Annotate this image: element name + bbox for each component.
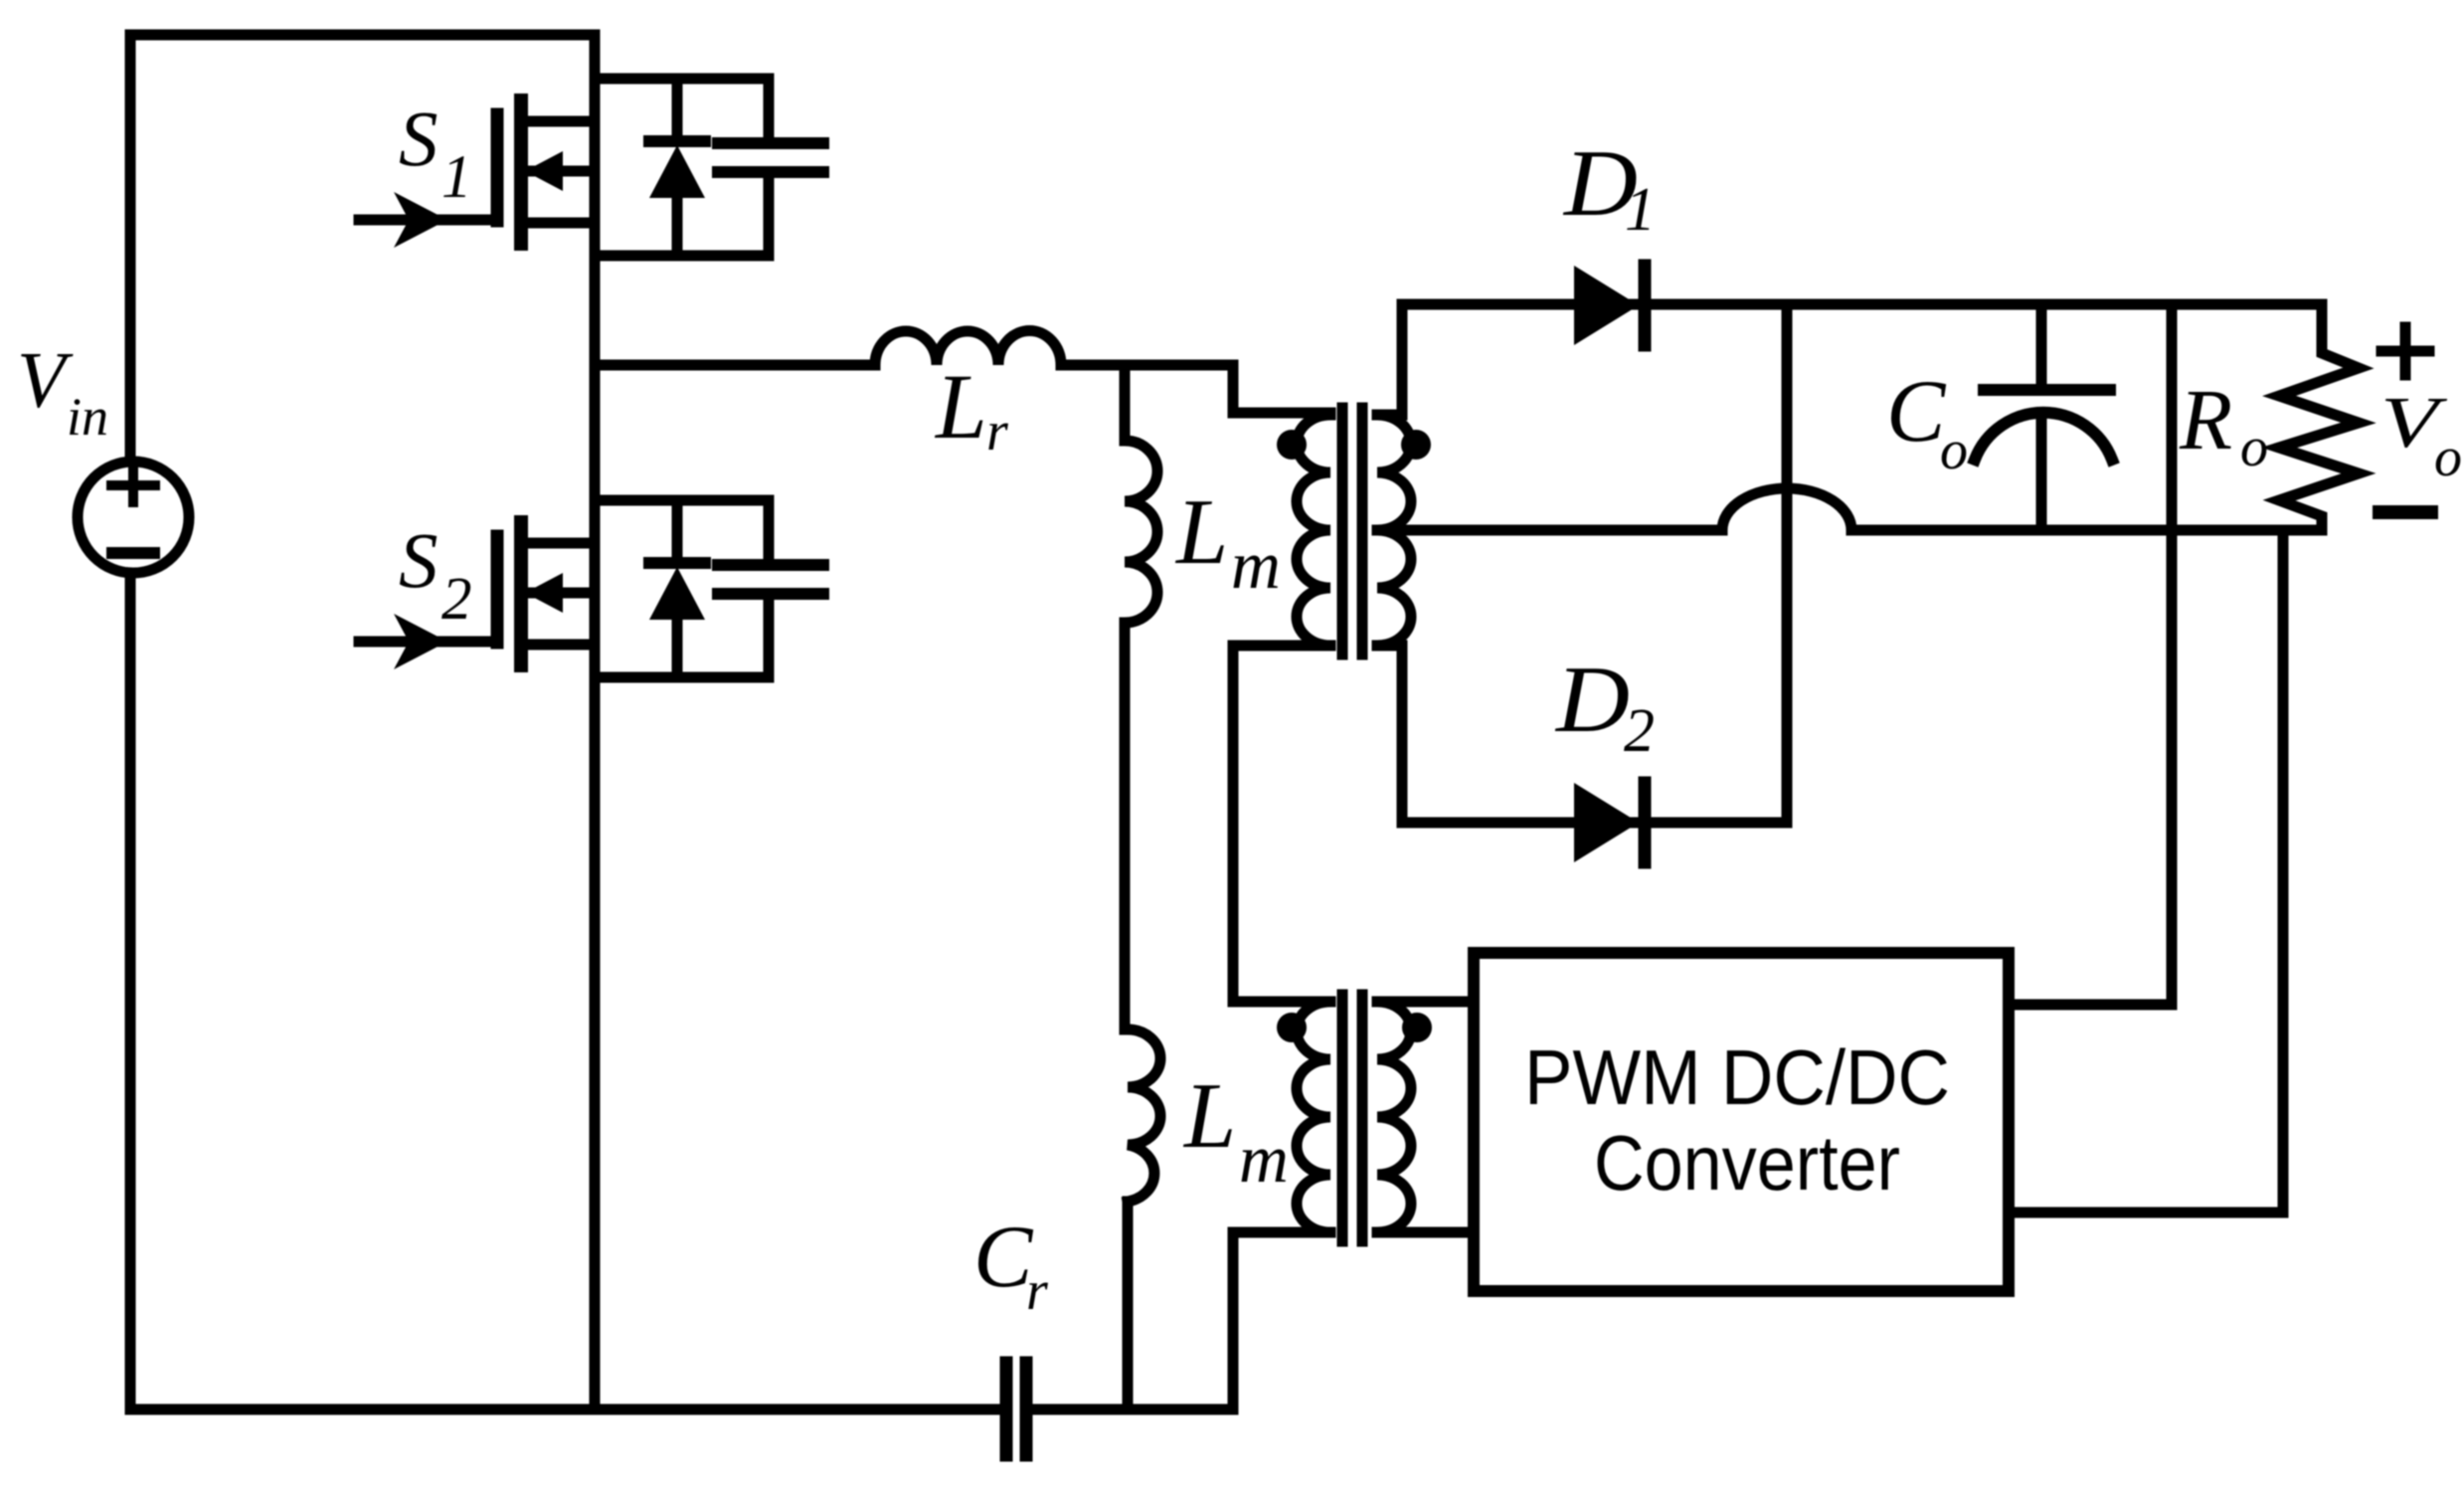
T1 primary bottom stub: [1233, 646, 1330, 1002]
wire center tap with hop: [1377, 488, 2322, 530]
diode D1: [1574, 266, 1645, 345]
wire switch node: [595, 360, 875, 371]
T1 primary winding: [1297, 415, 1330, 646]
T1 core: [1342, 408, 1362, 654]
svg-text:o: o: [1940, 420, 1968, 481]
T2 core: [1342, 995, 1362, 1241]
svg-text:m: m: [1231, 527, 1281, 603]
T2 secondary dot: [1402, 1013, 1432, 1042]
diode D2: [1574, 783, 1645, 862]
svg-text:PWM DC/DC: PWM DC/DC: [1524, 1033, 1950, 1121]
gate lead arrow S1: [359, 192, 493, 248]
T1 secondary dot: [1401, 430, 1431, 460]
inductor Lr: [875, 330, 1061, 365]
wire bottom rail left: [130, 1404, 1000, 1415]
T2 primary bottom stub: [1233, 1232, 1330, 1409]
mosfet S1: [497, 100, 595, 244]
svg-text:in: in: [67, 387, 108, 447]
svg-text:r: r: [986, 401, 1008, 463]
T1 primary dot: [1277, 430, 1307, 460]
svg-text:r: r: [1026, 1260, 1048, 1322]
wire rectifier top rail: [1402, 299, 2322, 310]
body diode of S2: [649, 500, 705, 677]
svg-text:R: R: [2179, 371, 2232, 467]
snubber branch S2 top wire: [595, 495, 769, 506]
T2 secondary winding: [1377, 1002, 1411, 1232]
T2 secondary bottom stub: [1377, 1227, 1474, 1238]
T1 secondary winding: [1377, 415, 1411, 646]
T2 primary winding: [1297, 1002, 1330, 1232]
snubber branch S2 bottom wire: [595, 672, 769, 683]
snubber capacitor of S1: [718, 79, 823, 256]
wire bottom rail right of Cr: [1032, 1404, 1233, 1415]
svg-text:1: 1: [1625, 176, 1656, 244]
body diode of S1: [649, 79, 705, 256]
capacitor Co: [1975, 304, 2112, 530]
wire left rail lower: [125, 578, 136, 1409]
svg-text:L: L: [1182, 1064, 1236, 1168]
wire PWM output bottom: [2009, 530, 2283, 1212]
snubber capacitor of S2: [718, 500, 823, 677]
wire top rail: [130, 30, 595, 41]
svg-text:S: S: [399, 518, 439, 605]
svg-text:D: D: [1554, 647, 1630, 752]
transformer T1: [1233, 408, 1431, 1002]
svg-text:C: C: [1886, 363, 1947, 461]
svg-text:C: C: [973, 1209, 1034, 1306]
snubber branch S1 top wire: [595, 74, 769, 85]
T2 secondary top stub: [1377, 997, 1474, 1008]
wire PWM output top: [2009, 304, 2172, 1005]
gate lead arrow S2: [359, 614, 493, 669]
voltage source Vin: [78, 462, 189, 573]
label Vo minus: [2379, 505, 2431, 519]
label Vo plus: [2381, 327, 2429, 375]
wire D1 D2 junction vertical: [1782, 304, 1793, 823]
wire left rail upper: [125, 35, 136, 457]
svg-text:1: 1: [441, 144, 472, 211]
T2 primary top stub: [1233, 997, 1330, 1008]
wire T1 secondary top: [1377, 304, 1402, 415]
T2 primary dot: [1277, 1013, 1307, 1042]
wire Lr to T1: [1061, 365, 1330, 413]
resistor Ro: [2279, 304, 2359, 530]
wire T1 secondary bottom to D2: [1377, 646, 1402, 823]
svg-text:o: o: [2240, 417, 2268, 478]
capacitor Cr: [1006, 1363, 1026, 1455]
inductor Lm1: [1125, 365, 1157, 1029]
svg-text:2: 2: [441, 566, 472, 633]
mosfet S2: [497, 522, 595, 665]
svg-text:2: 2: [1624, 697, 1655, 765]
svg-text:L: L: [1174, 480, 1228, 584]
snubber branch S1 bottom wire: [595, 251, 769, 262]
transformer T2: [1233, 995, 1474, 1409]
PWM DC/DC converter block: [1474, 953, 2009, 1291]
svg-text:S: S: [399, 96, 439, 183]
svg-text:V: V: [17, 337, 74, 425]
svg-text:L: L: [934, 356, 987, 459]
svg-text:Converter: Converter: [1594, 1119, 1900, 1207]
inductor Lm2: [1128, 1029, 1160, 1409]
svg-text:o: o: [2434, 427, 2462, 488]
svg-text:m: m: [1239, 1121, 1289, 1197]
wire D2: [1402, 818, 1787, 829]
wire half-bridge vertical: [590, 35, 601, 1409]
